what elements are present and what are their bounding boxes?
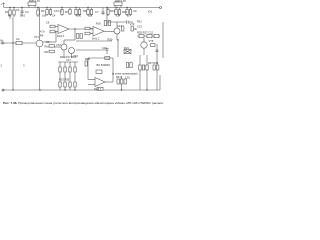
svg-text:50,0: 50,0 (20, 14, 26, 18)
svg-text:С21: С21 (117, 24, 122, 28)
svg-text:VT4: VT4 (73, 54, 78, 58)
svg-text:R5: R5 (46, 40, 50, 44)
svg-text:М10: М10 (76, 14, 82, 18)
svg-text:R41: R41 (116, 75, 121, 79)
svg-text:R16: R16 (96, 22, 101, 26)
svg-text:R1: R1 (5, 10, 9, 14)
svg-text:С8: С8 (116, 14, 120, 18)
svg-text:R4: R4 (40, 34, 44, 38)
svg-text:R9: R9 (83, 9, 87, 13)
svg-text:Рис. 7.38. Принципиальная схем: Рис. 7.38. Принципиальная схема усилител… (3, 101, 165, 105)
svg-text:С6: С6 (46, 21, 50, 25)
svg-text:R13: R13 (122, 10, 127, 14)
svg-text:C15: C15 (125, 76, 130, 80)
svg-text:R3: R3 (41, 9, 45, 13)
svg-text:R28: R28 (85, 57, 90, 61)
svg-text:C1: C1 (16, 8, 20, 12)
svg-text:R21: R21 (124, 46, 129, 50)
svg-text:R25 R27 C11: R25 R27 C11 (137, 31, 154, 35)
svg-text:DA1.1: DA1.1 (57, 34, 65, 38)
svg-text:C4: C4 (52, 14, 56, 18)
svg-text:С19: С19 (102, 46, 107, 50)
svg-text:R33 R35: R33 R35 (59, 78, 70, 82)
svg-text:C9: C9 (133, 9, 137, 13)
svg-text:VT2: VT2 (56, 43, 61, 47)
svg-text:DA2.1: DA2.1 (94, 87, 102, 91)
svg-text:(к плате коммутации): (к плате коммутации) (112, 72, 138, 76)
svg-text:R45 0,15: R45 0,15 (29, 0, 40, 3)
svg-text:C5 1,0: C5 1,0 (54, 9, 62, 13)
svg-text:2К: 2К (134, 27, 137, 31)
svg-text:ВС 549б4б: ВС 549б4б (97, 63, 111, 67)
svg-text:R6: R6 (45, 45, 49, 49)
svg-text:R31: R31 (137, 20, 142, 24)
svg-text:R7: R7 (65, 10, 69, 14)
svg-text:DA1.2: DA1.2 (92, 37, 100, 41)
svg-text:VT5: VT5 (149, 39, 154, 43)
svg-text:R37 R39: R37 R39 (148, 61, 159, 65)
svg-text:2к2: 2к2 (88, 14, 93, 18)
svg-text:С17: С17 (66, 58, 71, 62)
svg-text:R30: R30 (108, 38, 113, 42)
svg-text:М1: М1 (8, 14, 12, 18)
svg-text:R11: R11 (110, 9, 115, 13)
svg-text:C7: C7 (95, 10, 99, 14)
svg-text:R8: R8 (45, 50, 49, 54)
svg-text:С13: С13 (137, 25, 142, 29)
svg-text:VT1: VT1 (34, 35, 39, 39)
svg-text:VT3: VT3 (130, 22, 135, 26)
svg-text:Кт1: Кт1 (148, 10, 153, 14)
svg-text:C2: C2 (16, 37, 20, 41)
svg-text:C3: C3 (25, 10, 29, 14)
svg-text:R46 0,15: R46 0,15 (115, 0, 126, 3)
